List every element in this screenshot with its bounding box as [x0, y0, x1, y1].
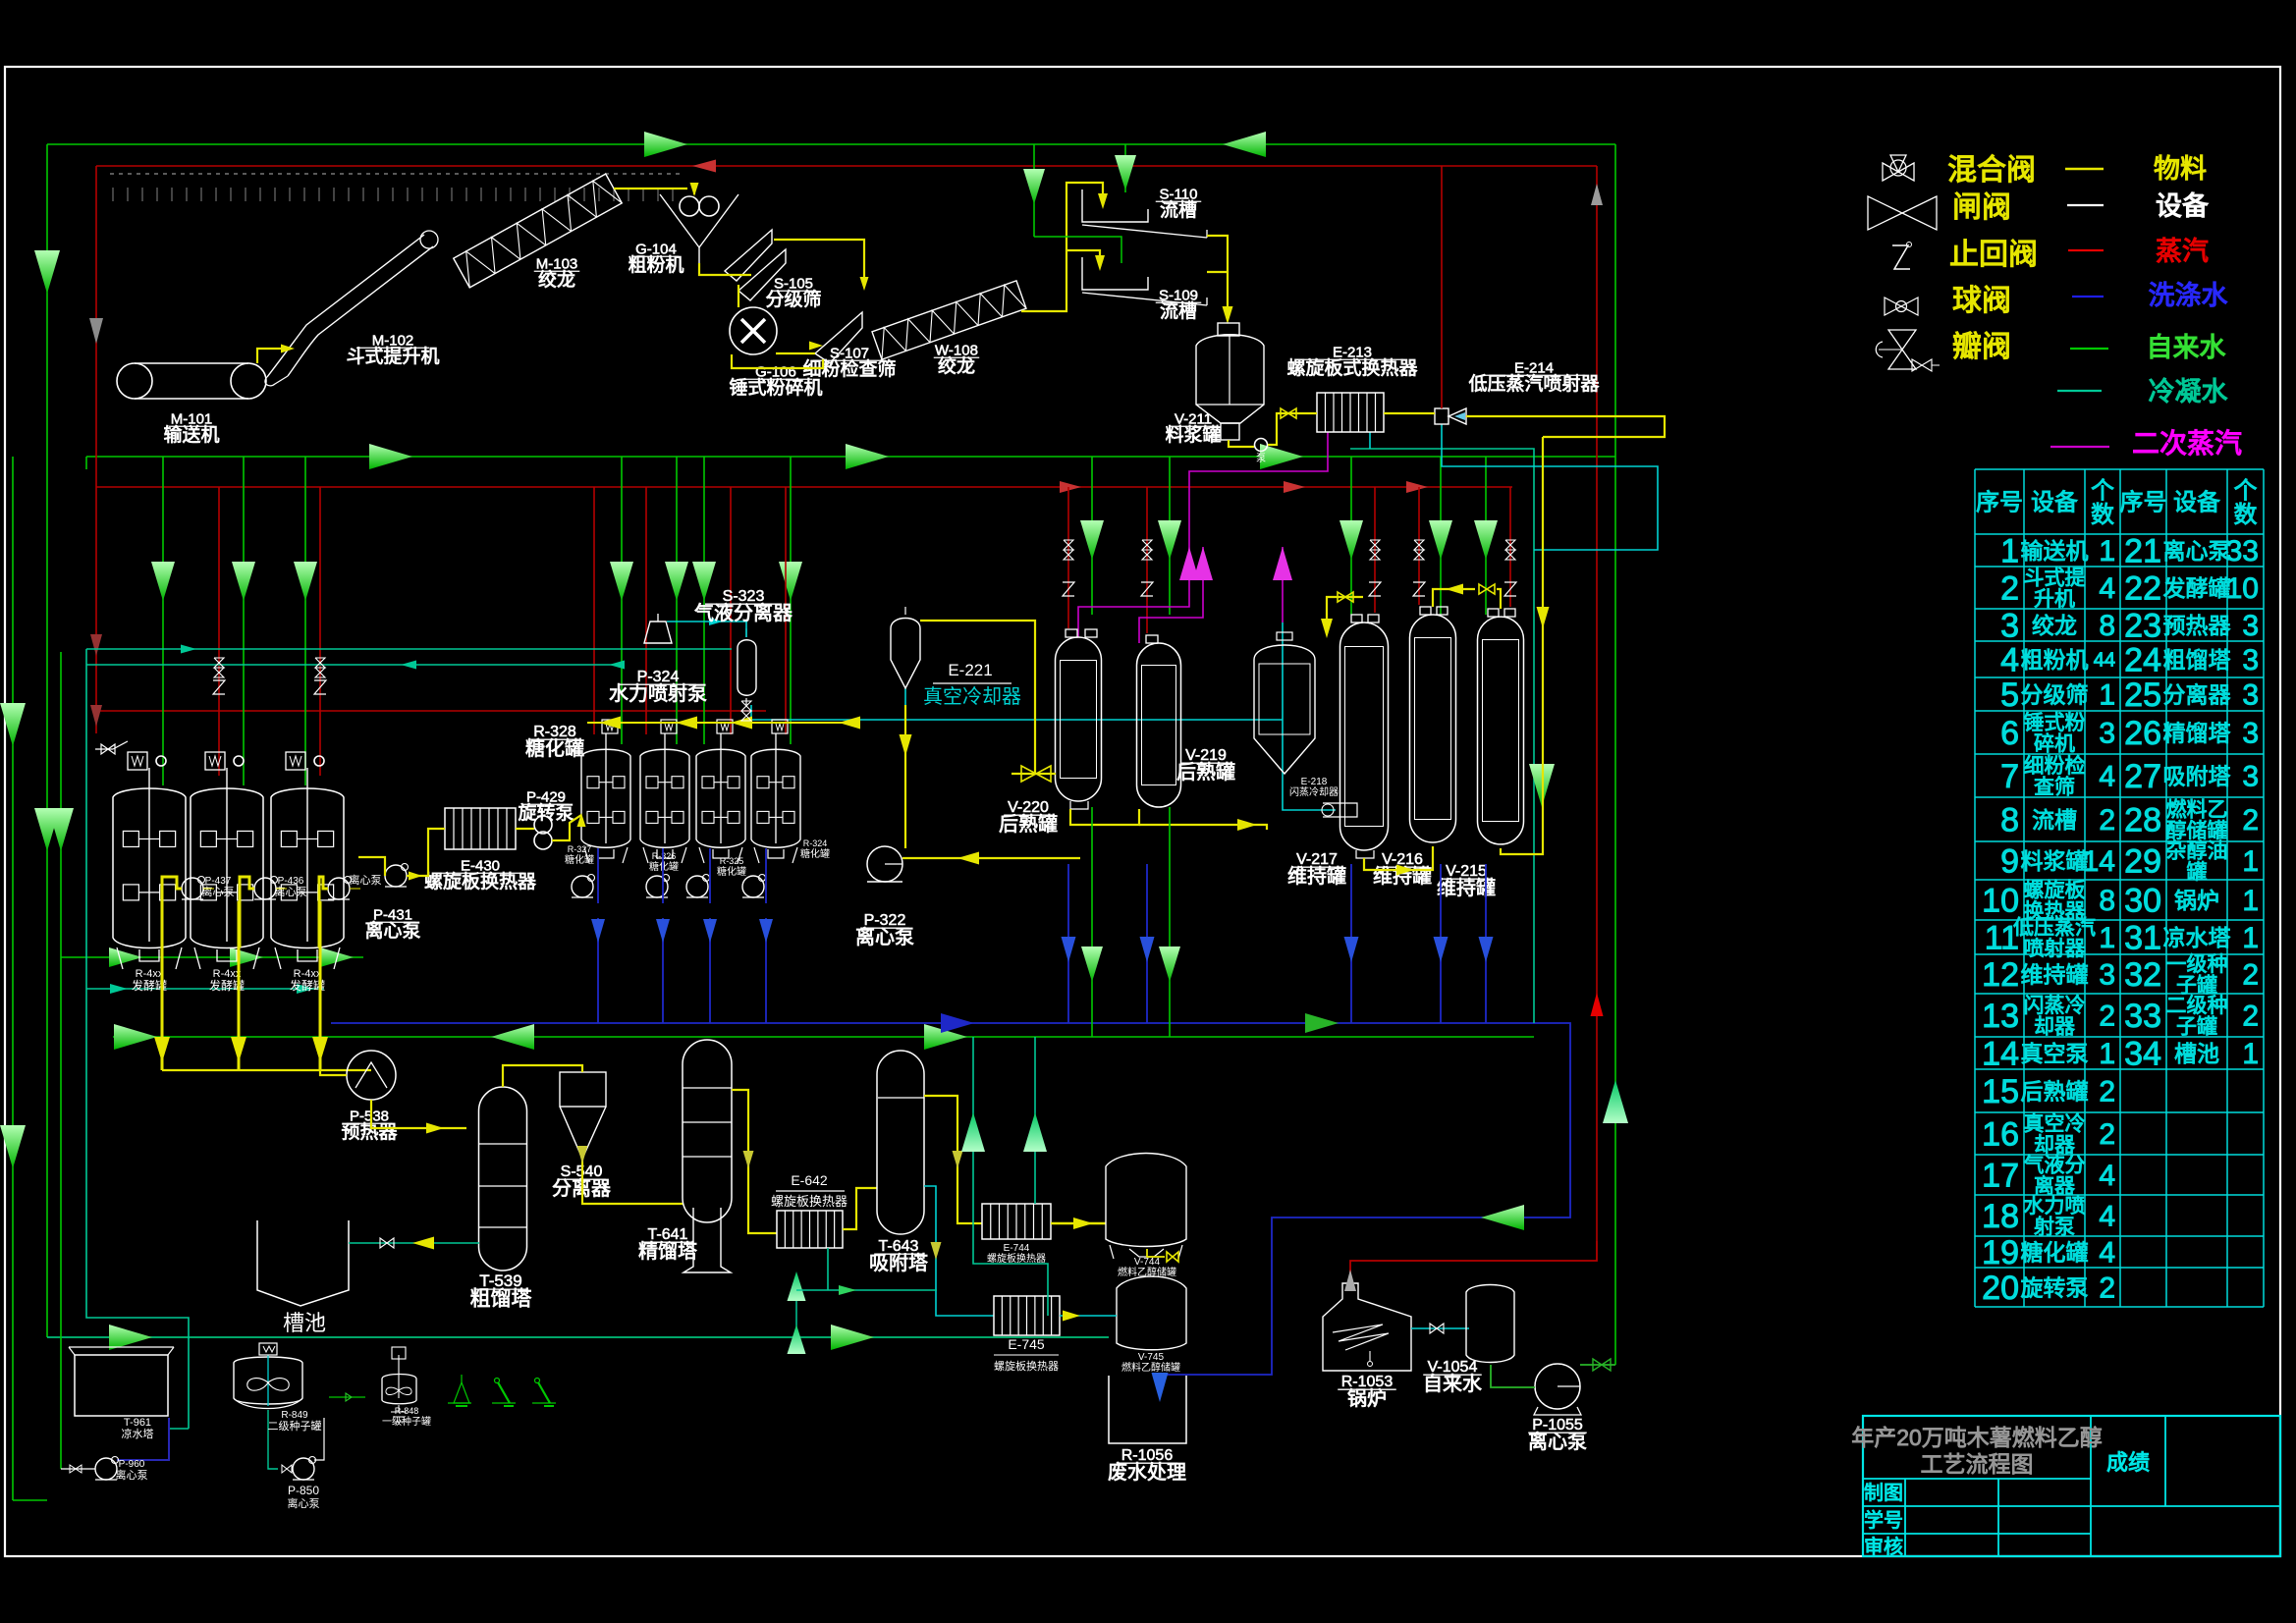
gray hatch dashes below top red trunk: [110, 173, 114, 175]
svg-text:离心泵: 离心泵: [116, 1468, 148, 1482]
svg-text:2: 2: [2242, 959, 2259, 992]
svg-text:12: 12: [1982, 956, 2019, 994]
fuel ethanol tank V-745: [1117, 1276, 1186, 1350]
svg-text:33: 33: [2124, 998, 2161, 1035]
red trunk right vertical (boiler riser): [1596, 166, 1598, 1241]
svg-text:碎机: 碎机: [2034, 732, 2075, 755]
green second left vertical: [60, 652, 62, 1469]
green tap into flume S-109: [1034, 237, 1121, 263]
svg-text:离心泵: 离心泵: [364, 920, 420, 942]
title block: [1863, 1416, 2280, 1556]
hydraulic ejector pump P-324: [644, 622, 672, 643]
svg-text:泵: 泵: [1256, 453, 1266, 464]
svg-text:E-744: E-744: [1004, 1243, 1030, 1254]
svg-text:25: 25: [2124, 676, 2161, 714]
green verticals mid-right: [1091, 457, 1093, 615]
svg-text:闸阀: 闸阀: [1952, 191, 2011, 224]
svg-text:个: 个: [2091, 477, 2114, 504]
red from boiler to riser: [1350, 1241, 1597, 1283]
tap water tank V-1054: [1466, 1285, 1514, 1363]
svg-text:吸附塔: 吸附塔: [2163, 763, 2231, 788]
ejector E-214: [1435, 408, 1449, 424]
fermenter top fittings: [213, 680, 225, 694]
svg-text:学号: 学号: [1864, 1509, 1903, 1532]
yellow S-540 to T-641: [582, 1159, 683, 1204]
svg-text:喷射器: 喷射器: [2024, 938, 2086, 960]
svg-text:28: 28: [2124, 801, 2161, 839]
yellow small valve under V-744: [1147, 1249, 1165, 1257]
svg-text:旋转泵: 旋转泵: [2021, 1274, 2089, 1300]
classifier screen S-105: [725, 230, 772, 281]
svg-text:设备: 设备: [2156, 191, 2209, 221]
svg-text:流槽: 流槽: [1160, 300, 1197, 322]
svg-text:槽池: 槽池: [2174, 1041, 2219, 1066]
svg-text:糖化罐: 糖化罐: [525, 737, 584, 760]
svg-text:糖化罐: 糖化罐: [717, 865, 746, 878]
svg-text:罐: 罐: [2187, 861, 2208, 884]
svg-text:17: 17: [1982, 1157, 2019, 1194]
svg-text:离心泵: 离心泵: [1528, 1431, 1587, 1453]
separator S-540: [560, 1072, 606, 1107]
svg-text:维持罐: 维持罐: [1437, 877, 1496, 899]
svg-text:物料: 物料: [2154, 154, 2207, 184]
svg-text:绞龙: 绞龙: [538, 269, 575, 291]
legend: gate valve symbol: [1868, 196, 1902, 230]
svg-text:锅炉: 锅炉: [2174, 888, 2219, 913]
condensate teal y=1007 under fermenters: [86, 988, 324, 990]
svg-text:R-326: R-326: [652, 851, 677, 861]
cooling tower T-961: [75, 1355, 168, 1416]
yellow E-744 to V-744: [1051, 1222, 1106, 1225]
blue T-961 to P-960: [117, 1418, 169, 1460]
svg-text:醇储罐: 醇储罐: [2166, 820, 2228, 842]
secondary steam magenta lines: [1078, 432, 1328, 637]
maintain tank V-215: [1478, 617, 1524, 844]
svg-text:3: 3: [2242, 718, 2259, 750]
legend: flap valve symbol: [1888, 330, 1916, 350]
yellow piping fermenters to E-430 to R-328: [358, 857, 385, 876]
svg-text:粗馏塔: 粗馏塔: [2163, 647, 2231, 673]
svg-text:气液分离器: 气液分离器: [694, 602, 793, 624]
svg-text:离心泵: 离心泵: [350, 873, 382, 887]
svg-text:却器: 却器: [2034, 1134, 2075, 1157]
fermenter small pumps P-437..: [182, 878, 203, 899]
svg-text:33: 33: [2226, 535, 2259, 568]
svg-text:1: 1: [2099, 922, 2115, 954]
svg-text:分离器: 分离器: [2163, 681, 2231, 707]
svg-text:1: 1: [2099, 1038, 2115, 1070]
svg-text:3: 3: [2242, 761, 2259, 793]
svg-text:32: 32: [2124, 956, 2161, 994]
svg-text:审核: 审核: [1864, 1536, 1903, 1558]
spring-green trunk bottom horizontal y=1362: [47, 1336, 1109, 1338]
svg-text:自来水: 自来水: [2147, 333, 2226, 362]
svg-text:4: 4: [2099, 761, 2115, 793]
svg-text:精馏塔: 精馏塔: [2163, 720, 2231, 745]
post-heater V-220: [1056, 637, 1102, 801]
svg-text:29: 29: [2124, 842, 2161, 880]
svg-text:31: 31: [2124, 919, 2161, 956]
yellow piping V-220 area: [1011, 773, 1056, 775]
svg-text:斗式提升机: 斗式提升机: [346, 346, 439, 367]
teal from E-642 bottom: [827, 1248, 829, 1290]
yellow into P-538 and to T-539: [320, 1042, 347, 1075]
condensate teal vertical x=1562: [1350, 449, 1534, 1023]
slurry tank V-211: [1196, 335, 1264, 423]
svg-text:4: 4: [2099, 572, 2115, 605]
svg-text:14: 14: [1982, 1035, 2019, 1072]
red trunk second horizontal y=496: [96, 486, 1512, 488]
svg-text:P-960: P-960: [119, 1459, 145, 1470]
flume S-110: [1082, 189, 1148, 222]
svg-text:R-325: R-325: [720, 856, 744, 866]
svg-text:低压蒸汽: 低压蒸汽: [2013, 916, 2096, 939]
svg-text:44: 44: [2094, 650, 2115, 672]
svg-text:分级筛: 分级筛: [765, 289, 821, 310]
svg-text:3: 3: [2242, 644, 2259, 676]
svg-text:4: 4: [2099, 1237, 2115, 1270]
svg-text:冷凝水: 冷凝水: [2149, 377, 2228, 406]
legend: material line: [2065, 168, 2104, 171]
svg-text:二级种: 二级种: [2166, 995, 2228, 1017]
boiler R-1053: [1323, 1283, 1411, 1371]
green P-1055 discharge to green trunk: [1580, 1364, 1615, 1366]
yellow E-221 top pipe from right: [920, 621, 1035, 774]
condensate cyan S-323 to E-221: [667, 621, 747, 622]
svg-text:序号: 序号: [1976, 490, 2023, 516]
svg-text:止回阀: 止回阀: [1949, 239, 2038, 271]
heat exchanger E-745: [994, 1296, 1060, 1335]
svg-text:自来水: 自来水: [1423, 1373, 1482, 1395]
svg-text:9: 9: [2000, 842, 2019, 880]
svg-text:1: 1: [2099, 679, 2115, 712]
svg-text:1: 1: [2242, 845, 2259, 878]
svg-text:离心泵: 离心泵: [202, 885, 235, 898]
svg-text:水力喷射泵: 水力喷射泵: [609, 682, 707, 705]
svg-text:分级筛: 分级筛: [2021, 681, 2089, 707]
svg-text:4: 4: [2099, 1160, 2115, 1192]
green trunk left vertical: [46, 144, 48, 1337]
svg-text:24: 24: [2124, 641, 2161, 678]
svg-text:2: 2: [2099, 1001, 2115, 1033]
svg-text:27: 27: [2124, 758, 2161, 795]
svg-text:斗式提: 斗式提: [2024, 567, 2086, 589]
small pump at E-218 outlet: [1323, 803, 1357, 817]
green long horizontal y=465: [86, 456, 1615, 458]
svg-text:一级种: 一级种: [2166, 953, 2228, 976]
seed tank R-848: [382, 1375, 416, 1404]
green far-left vertical: [12, 457, 14, 1500]
svg-text:旋转泵: 旋转泵: [518, 802, 574, 824]
green nozzle symbols: [448, 1402, 471, 1404]
yellow E-221 bottom down to P-322: [904, 705, 906, 848]
fuel ethanol tank V-744: [1106, 1154, 1186, 1247]
svg-text:螺旋板换热器: 螺旋板换热器: [771, 1194, 847, 1209]
svg-text:2: 2: [2099, 1272, 2115, 1305]
svg-text:16: 16: [1982, 1115, 2019, 1153]
svg-text:后熟罐: 后熟罐: [2021, 1078, 2089, 1104]
svg-text:糖化罐: 糖化罐: [649, 860, 679, 873]
svg-text:锤式粉: 锤式粉: [2024, 712, 2086, 734]
svg-text:离心泵: 离心泵: [855, 926, 914, 948]
fine screen S-107: [815, 312, 862, 363]
svg-text:锤式粉碎机: 锤式粉碎机: [729, 377, 822, 399]
yellow E-642 to T-643: [843, 1188, 877, 1229]
yellow T-539 top to S-540: [503, 1065, 582, 1087]
steam red trunk top: [96, 165, 1597, 167]
green horizontal y=975 under fermenters: [61, 956, 363, 958]
rectification column T-641: [683, 1040, 732, 1222]
svg-text:14: 14: [2083, 845, 2115, 878]
svg-text:8: 8: [2099, 610, 2115, 642]
svg-text:1: 1: [2242, 1038, 2259, 1070]
svg-text:21: 21: [2124, 532, 2161, 569]
svg-text:2: 2: [2099, 1118, 2115, 1151]
svg-text:26: 26: [2124, 715, 2161, 752]
svg-text:糖化罐: 糖化罐: [2021, 1239, 2089, 1265]
green long horizontal y=1056: [113, 1036, 1534, 1038]
svg-text:输送机: 输送机: [2021, 538, 2089, 564]
svg-text:螺旋板换热器: 螺旋板换热器: [424, 871, 536, 893]
svg-text:设备: 设备: [2031, 490, 2078, 516]
preheater P-538: [347, 1051, 396, 1100]
svg-text:绞龙: 绞龙: [938, 355, 975, 377]
flash cooler E-218 cone vessel: [1254, 645, 1315, 774]
svg-text:料浆罐: 料浆罐: [1165, 424, 1221, 446]
svg-text:2: 2: [2000, 569, 2019, 607]
svg-text:R-849: R-849: [281, 1410, 308, 1421]
svg-text:洗涤水: 洗涤水: [2149, 281, 2228, 310]
yellow P-322 suction from V-220 bottom line: [902, 857, 1080, 859]
R-328 tank 1: [581, 749, 630, 847]
legend: steam line: [2068, 249, 2104, 251]
svg-text:发酵罐: 发酵罐: [2163, 575, 2231, 601]
svg-text:后熟罐: 后熟罐: [1176, 761, 1235, 784]
svg-text:R-324: R-324: [803, 839, 828, 848]
svg-text:锅炉: 锅炉: [1347, 1387, 1387, 1410]
maintain tank V-216: [1410, 615, 1456, 842]
svg-text:V-745: V-745: [1138, 1352, 1165, 1363]
svg-text:维持罐: 维持罐: [1287, 865, 1346, 888]
legend: washing water line: [2072, 296, 2104, 298]
svg-text:V-744: V-744: [1134, 1257, 1161, 1268]
svg-text:真空泵: 真空泵: [2021, 1041, 2089, 1066]
teal branch y=1314 to E-745: [796, 1289, 937, 1291]
legend: tap water line: [2070, 348, 2108, 350]
equipment count table: [1975, 468, 2264, 470]
valve into fermenter 1: [95, 748, 113, 750]
R-328 blue outlet pumps: [572, 876, 593, 897]
svg-text:螺旋板换热器: 螺旋板换热器: [987, 1252, 1046, 1265]
teal slops line T-539 to silo: [349, 1242, 479, 1244]
svg-text:数: 数: [2234, 502, 2258, 528]
svg-text:螺旋板换热器: 螺旋板换热器: [994, 1359, 1059, 1373]
svg-text:3: 3: [2099, 959, 2115, 992]
svg-text:E-218: E-218: [1301, 777, 1328, 787]
svg-text:粗馏塔: 粗馏塔: [470, 1288, 532, 1311]
svg-text:预热器: 预热器: [2163, 613, 2231, 638]
svg-text:序号: 序号: [2120, 490, 2167, 516]
svg-text:1: 1: [2242, 922, 2259, 954]
svg-text:6: 6: [2000, 715, 2019, 752]
svg-text:R-848: R-848: [395, 1406, 419, 1416]
svg-text:E-642: E-642: [791, 1172, 828, 1188]
svg-text:年产20万吨木薯燃料乙醇: 年产20万吨木薯燃料乙醇: [1851, 1425, 2103, 1450]
red drops from y=496 to column tops with check symbols: [218, 487, 220, 776]
svg-text:废水处理: 废水处理: [1108, 1461, 1186, 1484]
svg-text:真空冷: 真空冷: [2024, 1112, 2086, 1135]
svg-text:流槽: 流槽: [1160, 199, 1197, 221]
svg-text:查筛: 查筛: [2034, 776, 2075, 798]
svg-text:凉水塔: 凉水塔: [122, 1427, 154, 1440]
hammer mill G-106 circle: [730, 307, 777, 354]
red horizontal y=724 over fermenters: [96, 710, 766, 712]
svg-text:瓣阀: 瓣阀: [1952, 331, 2011, 363]
svg-text:升机: 升机: [2034, 588, 2075, 611]
condensate teal trunk x=88: [86, 649, 189, 1429]
svg-text:混合阀: 混合阀: [1947, 154, 2036, 187]
green drops to fermenters / R-328 tanks: [162, 457, 164, 785]
svg-text:3: 3: [2242, 679, 2259, 712]
washing-water blue trunk: [331, 1023, 1570, 1375]
wastewater basin R-1056: [1109, 1376, 1186, 1443]
svg-text:槽池: 槽池: [283, 1311, 326, 1335]
svg-text:气液分: 气液分: [2024, 1154, 2086, 1176]
teal boiler to V-1054: [1411, 1327, 1469, 1329]
svg-text:射泵: 射泵: [2034, 1216, 2075, 1238]
yellow material path top train: [614, 188, 687, 189]
svg-text:2: 2: [2099, 804, 2115, 837]
gas-liquid separator S-323: [738, 640, 756, 696]
svg-text:4: 4: [2099, 1201, 2115, 1233]
svg-text:离心泵: 离心泵: [2163, 538, 2231, 564]
svg-text:2: 2: [2242, 804, 2259, 837]
stirrer blades R-849: [247, 1379, 268, 1391]
svg-text:精馏塔: 精馏塔: [638, 1240, 697, 1263]
fermenter tank 1 (R-4xx): [113, 788, 186, 948]
heat exchanger E-642: [777, 1211, 843, 1248]
svg-text:闪蒸冷: 闪蒸冷: [2024, 995, 2086, 1017]
svg-text:5: 5: [2000, 676, 2019, 714]
svg-text:螺旋板: 螺旋板: [2024, 879, 2086, 901]
svg-text:E-221: E-221: [948, 661, 992, 679]
yellow T-641 to E-642: [732, 1090, 777, 1233]
svg-text:离心泵: 离心泵: [288, 1496, 320, 1510]
legend: equipment line: [2067, 204, 2104, 206]
svg-text:燃料乙醇储罐: 燃料乙醇储罐: [1121, 1361, 1180, 1374]
svg-text:P-437: P-437: [205, 876, 232, 887]
R-328 tank 3: [696, 749, 745, 847]
svg-text:流槽: 流槽: [2032, 807, 2077, 833]
svg-text:P-850: P-850: [288, 1484, 319, 1497]
svg-text:二级种子罐: 二级种子罐: [268, 1419, 322, 1433]
cyan from E-213/E-214 bottoms: [1442, 424, 1658, 550]
yellow feed conveyor to elevator: [257, 349, 290, 363]
green V-1054 to P-1055: [1491, 1365, 1535, 1387]
yellow fermenter outlet piping: [162, 877, 182, 947]
pump P-1055: [1535, 1364, 1580, 1409]
yellow risers to flumes S-110/S-109: [1021, 183, 1103, 311]
svg-text:蒸汽: 蒸汽: [2156, 237, 2209, 266]
svg-text:后熟罐: 后熟罐: [999, 813, 1058, 836]
svg-text:料浆罐: 料浆罐: [2021, 848, 2089, 874]
crude column T-539: [479, 1087, 527, 1271]
red steam drop into E-214: [1441, 166, 1443, 408]
blue piping from R-328 tanks down: [597, 848, 599, 903]
svg-text:20: 20: [1982, 1270, 2019, 1307]
yellow right drop to maintain tanks: [1517, 437, 1543, 854]
yellow arrows over R-328 tanks: [587, 722, 845, 724]
svg-text:低压蒸汽喷射器: 低压蒸汽喷射器: [1468, 373, 1599, 395]
green line R-849 to R-848: [329, 1396, 365, 1398]
svg-text:23: 23: [2124, 607, 2161, 644]
svg-text:预热器: 预热器: [341, 1121, 397, 1143]
bucket elevator M-102: [267, 235, 424, 377]
svg-text:糖化罐: 糖化罐: [800, 847, 830, 860]
svg-text:E-745: E-745: [1008, 1336, 1045, 1352]
fermenter tank 3: [271, 788, 344, 948]
screw conveyor W-108: [872, 281, 1026, 359]
svg-text:个: 个: [2234, 477, 2258, 504]
svg-text:粗粉机: 粗粉机: [2021, 647, 2089, 673]
svg-text:1: 1: [2242, 885, 2259, 917]
screw conveyor M-103: [454, 174, 622, 288]
svg-text:水力喷: 水力喷: [2024, 1195, 2086, 1217]
svg-text:34: 34: [2124, 1035, 2161, 1072]
svg-text:19: 19: [1982, 1234, 2019, 1271]
red trunk left vertical: [95, 166, 97, 733]
centrifugal pump P-322: [867, 846, 902, 882]
svg-text:球阀: 球阀: [1952, 285, 2011, 317]
legend: secondary steam line: [2050, 446, 2109, 448]
svg-text:8: 8: [2000, 801, 2019, 839]
svg-text:P-436: P-436: [278, 876, 304, 887]
svg-text:数: 数: [2091, 502, 2114, 528]
crusher G-104 hopper: [660, 194, 738, 247]
svg-text:绞龙: 绞龙: [2032, 613, 2077, 638]
R-328 tank 2: [640, 749, 689, 847]
teal risers near E-744: [973, 1037, 1048, 1316]
svg-text:却器: 却器: [2034, 1015, 2075, 1038]
seed tank R-849: [234, 1357, 302, 1404]
svg-text:真空冷却器: 真空冷却器: [923, 685, 1021, 708]
svg-text:成绩: 成绩: [2106, 1450, 2150, 1475]
blue drops from column bottoms: [1067, 864, 1069, 1023]
yellow E-745 to V-745: [1060, 1315, 1117, 1317]
green verticals continue below columns: [1091, 807, 1093, 1037]
flume S-109: [1082, 257, 1148, 290]
svg-text:T-961: T-961: [124, 1417, 151, 1429]
svg-text:粗粉机: 粗粉机: [628, 254, 683, 276]
heat exchanger E-744: [982, 1204, 1051, 1239]
svg-text:30: 30: [2124, 882, 2161, 919]
svg-text:15: 15: [1982, 1073, 2019, 1110]
yellow drops to bottom section: [161, 901, 164, 1070]
vacuum cooler E-221: [891, 619, 920, 689]
conveyor M-101: [117, 363, 152, 399]
svg-text:杂醇油: 杂醇油: [2166, 839, 2228, 862]
svg-text:凉水塔: 凉水塔: [2163, 925, 2231, 950]
svg-text:1: 1: [2099, 535, 2115, 568]
svg-text:制图: 制图: [1864, 1482, 1903, 1504]
svg-text:22: 22: [2124, 569, 2161, 607]
legend: ball valve symbol: [1885, 298, 1901, 315]
svg-text:输送机: 输送机: [163, 424, 219, 446]
svg-text:R-327: R-327: [568, 844, 592, 854]
svg-text:离心泵: 离心泵: [275, 885, 307, 898]
svg-text:维持罐: 维持罐: [2021, 961, 2089, 987]
short green drops from top trunk: [1033, 144, 1035, 237]
